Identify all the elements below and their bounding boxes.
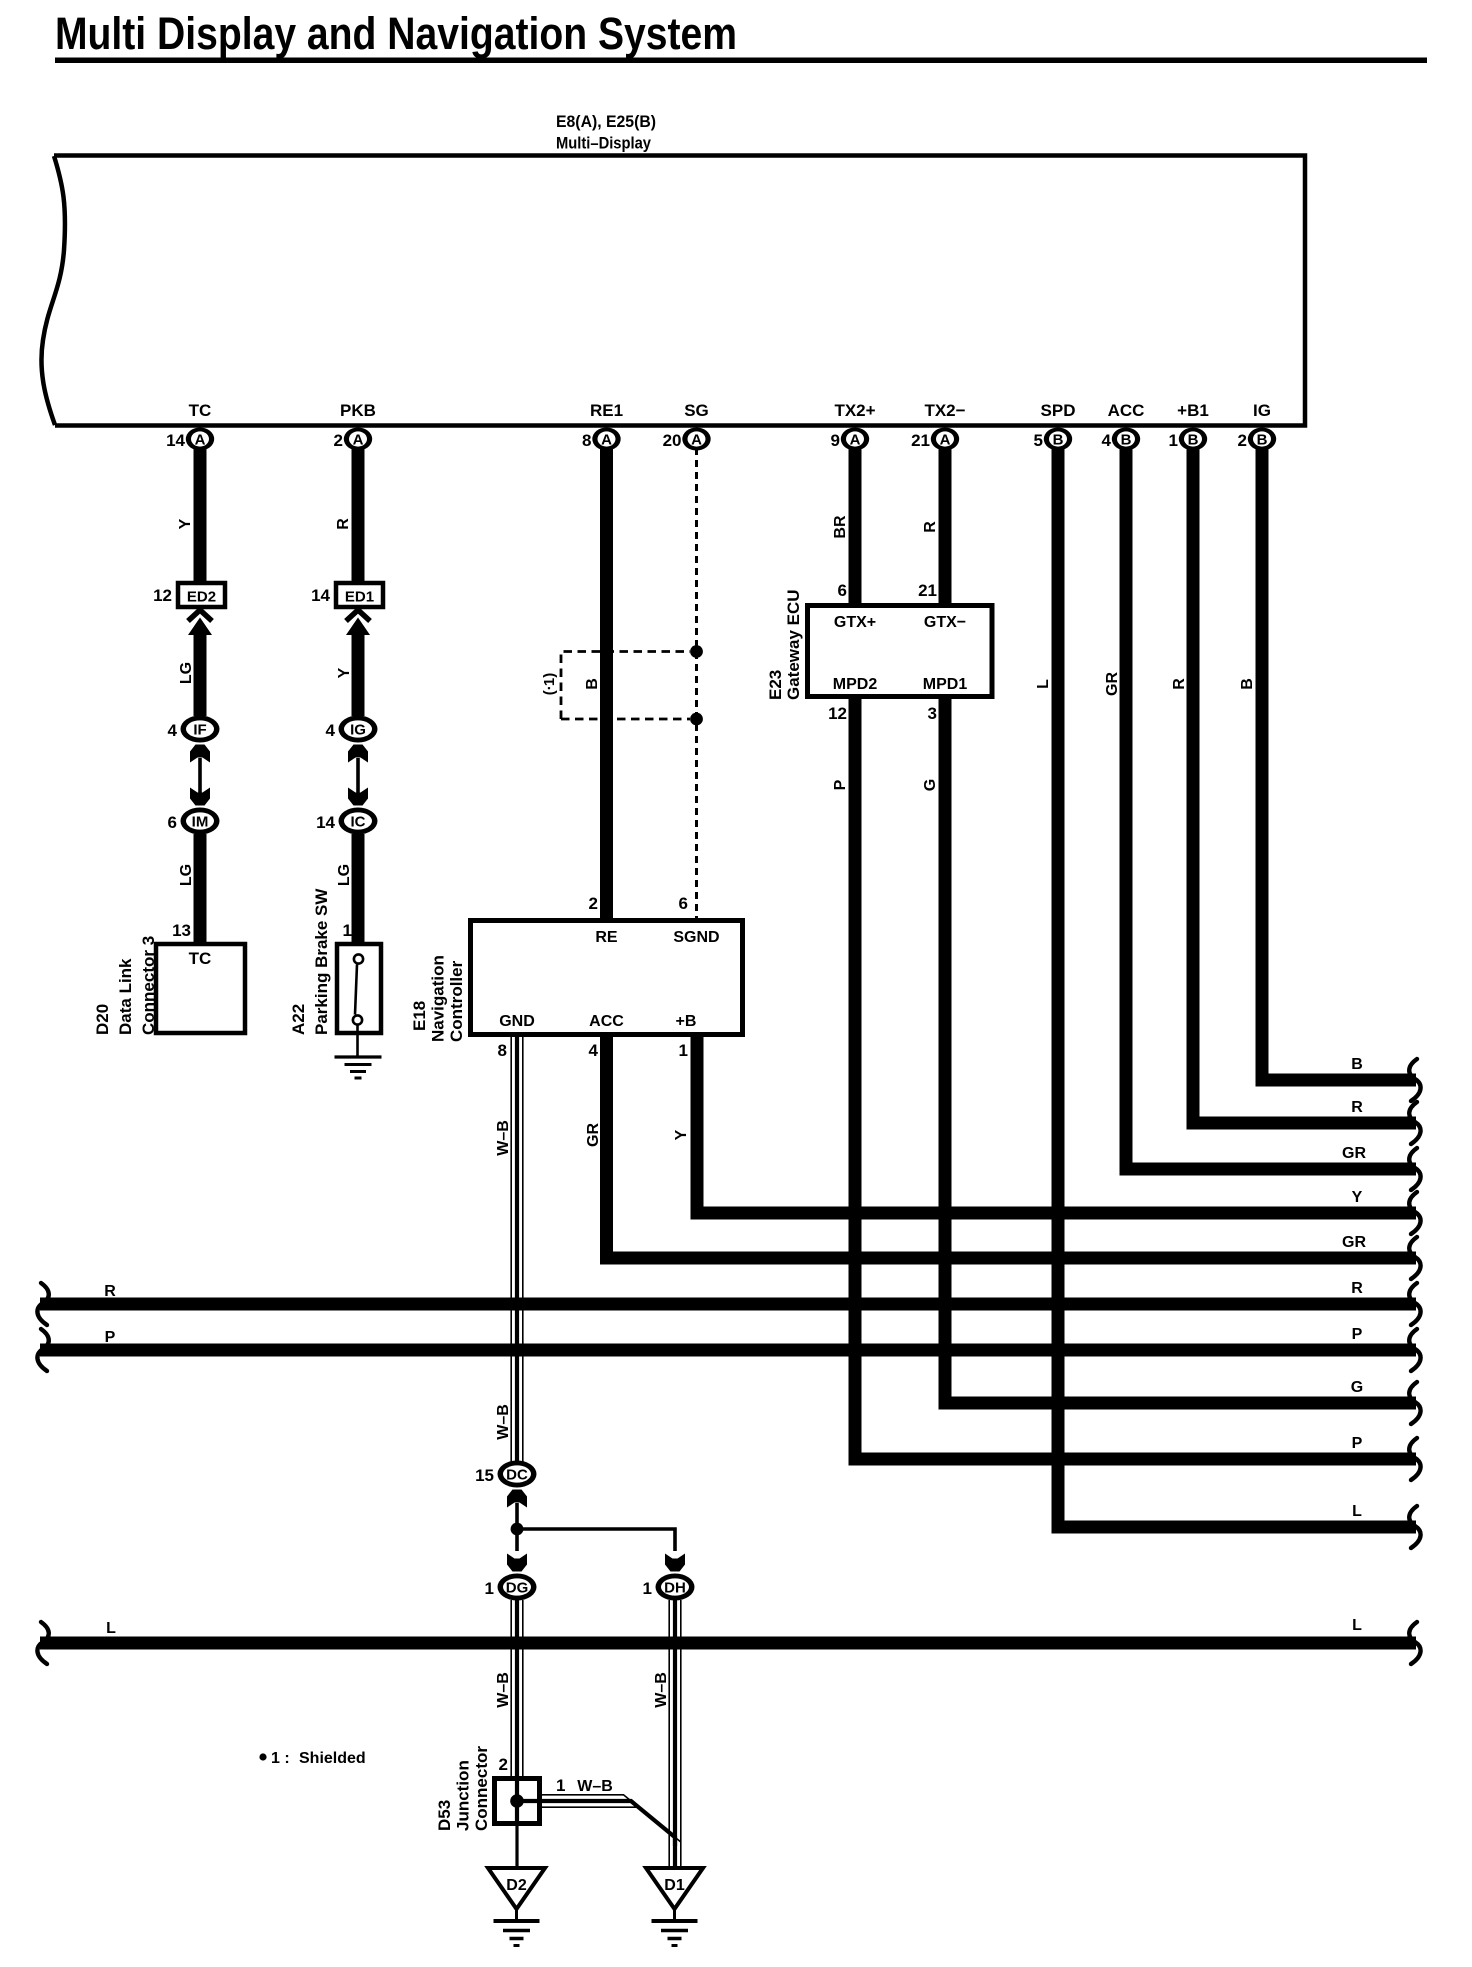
wire W-B from DG to junction connector D53 (510, 1600, 512, 1778)
switch blade (355, 965, 357, 1015)
svg-text:LG: LG (178, 662, 195, 684)
link line DC to branch node (515, 1503, 519, 1529)
svg-text:R: R (1351, 1280, 1363, 1297)
connector ED1 box (336, 583, 383, 607)
svg-text:IC: IC (351, 813, 366, 830)
arrow up into IF (190, 745, 210, 763)
wire TX2+ (BR) from pin 9(A) to Gateway ECU pin 6 (849, 448, 862, 607)
wire P trunk left break (37, 1329, 48, 1371)
arrow up into DC (507, 1490, 527, 1508)
wire PKB (R) pin 2(A) to connector ED1 (352, 448, 365, 582)
svg-text:Gateway ECU: Gateway ECU (784, 589, 803, 700)
wire SPD (L) from pin 5(B) to right edge (1058, 448, 1416, 1527)
svg-text:D53: D53 (435, 1800, 454, 1831)
svg-text:2: 2 (1238, 431, 1247, 450)
svg-text:P: P (105, 1329, 116, 1346)
link line IG to IC (356, 758, 360, 802)
wire W-B from DH down to ground D1 (668, 1600, 670, 1868)
svg-text:14: 14 (311, 586, 330, 605)
svg-text:9: 9 (831, 431, 840, 450)
Data Link Connector 3 box D20 (156, 944, 245, 1033)
wire MPD2 (P) from Gateway ECU pin 12 to right edge (855, 695, 1416, 1459)
branch line to DH (517, 1529, 675, 1551)
svg-text:MPD1: MPD1 (923, 676, 968, 693)
ground triangle D1 (646, 1868, 703, 1909)
D53 center wire (515, 1781, 519, 1821)
wire ACC (GR) from pin 4(B) to right edge (1126, 448, 1416, 1169)
arrow down into DG (507, 1554, 527, 1572)
connector ED2 box (178, 583, 225, 607)
branch node dot (511, 1523, 524, 1536)
switch contact top (354, 954, 363, 963)
svg-text:A: A (940, 432, 951, 449)
svg-text:1 :: 1 : (271, 1750, 290, 1767)
svg-text:E8(A), E25(B): E8(A), E25(B) (556, 112, 656, 131)
svg-text:E23: E23 (766, 670, 785, 700)
svg-text:B: B (1188, 432, 1199, 449)
title underline (55, 58, 1427, 64)
svg-text:Multi Display and Navigation S: Multi Display and Navigation System (55, 8, 737, 59)
svg-text:GR: GR (1104, 672, 1121, 696)
svg-text:+B: +B (676, 1013, 697, 1030)
wire nav GND (W-B) pin 8 down to junction DC (510, 1034, 512, 1462)
svg-text:GR: GR (585, 1123, 602, 1147)
svg-text:L: L (106, 1620, 116, 1637)
junction connector IF (181, 716, 220, 743)
svg-text:1: 1 (556, 1776, 565, 1795)
ground symbol under D1 (673, 1909, 676, 1920)
svg-text:12: 12 (153, 586, 172, 605)
svg-text:13: 13 (172, 921, 191, 940)
D53 junction dot (510, 1794, 524, 1808)
wire LG from IC to A22 (352, 834, 365, 944)
svg-text:8: 8 (582, 431, 591, 450)
svg-text:Controller: Controller (447, 960, 466, 1042)
wire R trunk (full width) (40, 1298, 1416, 1311)
svg-text:2: 2 (589, 894, 598, 913)
svg-text:W–B: W–B (495, 1404, 512, 1440)
svg-text:A: A (691, 432, 702, 449)
svg-text:P: P (1352, 1435, 1363, 1452)
svg-text:ED2: ED2 (187, 589, 216, 606)
wire D53 to ground D2 (515, 1823, 518, 1868)
switch contact bottom (353, 1015, 362, 1024)
svg-text:21: 21 (918, 581, 937, 600)
svg-text:P: P (832, 779, 849, 790)
svg-text:GTX−: GTX− (924, 614, 966, 631)
link line IF to IM (198, 758, 202, 802)
svg-text:IF: IF (193, 721, 206, 738)
svg-text:B: B (1121, 432, 1132, 449)
svg-text:DH: DH (664, 1579, 686, 1596)
link line node to DG arrow (515, 1529, 519, 1551)
svg-text:12: 12 (828, 704, 847, 723)
svg-text:BR: BR (832, 515, 849, 539)
svg-text:1: 1 (643, 1579, 652, 1598)
svg-text:R: R (922, 521, 939, 533)
Navigation Controller box E18 (471, 921, 743, 1035)
wire RE1 (B) pin 8(A) to Navigation Controller RE pin 2 (600, 448, 613, 922)
svg-text:4: 4 (589, 1041, 599, 1060)
svg-text:LG: LG (336, 864, 353, 886)
svg-text:Y: Y (673, 1129, 690, 1140)
connector ED2 chevron arrow (188, 610, 212, 621)
junction connector IM (181, 808, 220, 835)
svg-text:B: B (1351, 1056, 1363, 1073)
svg-text:Multi–Display: Multi–Display (556, 134, 651, 153)
switch wire to ground (356, 1025, 359, 1057)
svg-text:TC: TC (189, 949, 212, 968)
svg-text:4: 4 (168, 721, 178, 740)
svg-text:MPD2: MPD2 (833, 676, 878, 693)
ECU box left torn edge (41, 156, 65, 425)
svg-text:Data Link: Data Link (116, 958, 135, 1035)
junction connector DC (498, 1461, 537, 1488)
svg-text:E18: E18 (410, 1001, 429, 1031)
svg-text:R: R (335, 518, 352, 530)
svg-text:B: B (1239, 678, 1256, 690)
svg-text:R: R (104, 1283, 116, 1300)
svg-text:ACC: ACC (1108, 401, 1145, 420)
svg-text:SG: SG (684, 401, 709, 420)
svg-text:W–B: W–B (577, 1778, 613, 1795)
wire P trunk right break (1409, 1329, 1420, 1371)
svg-text:R: R (1351, 1099, 1363, 1116)
W-B jumper wire D53 to D1 drop (540, 1795, 668, 1832)
svg-text:IG: IG (1253, 401, 1271, 420)
svg-text:5: 5 (1034, 431, 1043, 450)
wire TX2- (R) from pin 21(A) to Gateway ECU pin 21 (939, 448, 952, 607)
svg-text:6: 6 (679, 894, 688, 913)
svg-text:W–B: W–B (495, 1120, 512, 1156)
junction connector IC (339, 808, 378, 835)
svg-text:2: 2 (334, 431, 343, 450)
svg-text:TX2+: TX2+ (834, 401, 875, 420)
svg-text:G: G (922, 779, 939, 791)
wire nav ACC (GR) pin 4 to right edge (607, 1034, 1417, 1258)
svg-text:Y: Y (1352, 1189, 1363, 1206)
wire LG from IM to D20 (194, 834, 207, 944)
svg-text:2: 2 (499, 1755, 508, 1774)
arrow down into IM (190, 788, 210, 806)
svg-text:LG: LG (178, 864, 195, 886)
svg-text:1: 1 (343, 921, 352, 940)
svg-text:14: 14 (316, 813, 335, 832)
svg-text:RE: RE (595, 929, 618, 946)
wire R trunk right break (1409, 1283, 1420, 1325)
wire nav +B (Y) pin 1 to right edge (697, 1034, 1416, 1213)
connector ED1 chevron arrow (346, 610, 370, 621)
svg-text:DC: DC (506, 1466, 528, 1483)
svg-text:PKB: PKB (340, 401, 376, 420)
wire IG (B) from pin 2(B) to right edge (1262, 448, 1416, 1080)
wire L trunk left break (37, 1622, 48, 1664)
wire LG from ED2 to junction IF (194, 629, 207, 716)
svg-text:L: L (1035, 679, 1052, 689)
svg-text:IM: IM (192, 813, 209, 830)
svg-text:TX2−: TX2− (924, 401, 965, 420)
svg-text:IG: IG (350, 721, 366, 738)
svg-text:B: B (1257, 432, 1268, 449)
note bullet (259, 1753, 266, 1760)
svg-text:GR: GR (1342, 1234, 1366, 1251)
svg-text:ACC: ACC (589, 1013, 624, 1030)
arrow up into IG (348, 745, 368, 763)
svg-text:14: 14 (166, 431, 185, 450)
svg-text:Parking Brake SW: Parking Brake SW (312, 888, 331, 1035)
svg-text:15: 15 (475, 1466, 494, 1485)
svg-text:3: 3 (928, 704, 937, 723)
svg-text:DG: DG (506, 1579, 529, 1596)
svg-text:A: A (195, 432, 206, 449)
svg-text:A: A (353, 432, 364, 449)
junction connector DH (656, 1574, 695, 1601)
svg-text:B: B (584, 678, 601, 690)
svg-text:D2: D2 (506, 1877, 527, 1894)
svg-text:Connector 3: Connector 3 (139, 936, 158, 1035)
svg-text:D20: D20 (93, 1004, 112, 1035)
svg-text:4: 4 (326, 721, 336, 740)
svg-text:A22: A22 (289, 1004, 308, 1035)
svg-text:Y: Y (336, 667, 353, 678)
svg-text:L: L (1352, 1617, 1362, 1634)
svg-text:D1: D1 (664, 1877, 685, 1894)
svg-text:ED1: ED1 (345, 589, 374, 606)
wire TC (Y) pin 14(A) to connector ED2 (194, 448, 207, 582)
svg-text:SPD: SPD (1041, 401, 1076, 420)
junction connector D53 box (495, 1779, 540, 1824)
wire L trunk (full width) (40, 1637, 1416, 1650)
svg-text:L: L (1352, 1503, 1362, 1520)
svg-text:6: 6 (168, 813, 177, 832)
junction connector DG (498, 1574, 537, 1601)
svg-text:GTX+: GTX+ (834, 614, 876, 631)
svg-text:1: 1 (679, 1041, 688, 1060)
svg-text:SGND: SGND (673, 929, 719, 946)
wire MPD1 (G) from Gateway ECU pin 3 to right edge (945, 695, 1416, 1403)
svg-text:A: A (850, 432, 861, 449)
svg-text:RE1: RE1 (590, 401, 623, 420)
arrow down into IC (348, 788, 368, 806)
D53 dot to right edge link (517, 1799, 539, 1803)
wire +B1 (R) from pin 1(B) to right edge (1193, 448, 1416, 1123)
svg-text:Navigation: Navigation (429, 955, 448, 1042)
wire Y from ED1 to junction IG (352, 629, 365, 716)
svg-text:+B1: +B1 (1177, 401, 1209, 420)
svg-text:8: 8 (498, 1041, 507, 1060)
ground symbol under D2 (515, 1909, 518, 1920)
Parking Brake SW box A22 (337, 944, 381, 1033)
ground symbol under A22 (335, 1055, 382, 1058)
svg-text:20: 20 (663, 431, 682, 450)
svg-text:P: P (1352, 1326, 1363, 1343)
shield junction dot top (690, 645, 703, 658)
shield box around RE1 wire (dashed) (561, 652, 690, 720)
svg-text:21: 21 (911, 431, 930, 450)
svg-text:Connector: Connector (472, 1746, 491, 1831)
ECU box E8/E25 Multi-Display outline (54, 156, 1305, 426)
svg-text:GR: GR (1342, 1145, 1366, 1162)
svg-text:R: R (1171, 678, 1188, 690)
wire L trunk right break (1409, 1622, 1420, 1664)
svg-text:Y: Y (177, 518, 194, 529)
svg-text:TC: TC (189, 401, 212, 420)
svg-text:W–B: W–B (495, 1672, 512, 1708)
wire SG shield drain pin 20(A) to SGND (dashed) (695, 448, 698, 922)
ground triangle D2 (488, 1868, 545, 1909)
svg-text:A: A (601, 432, 612, 449)
svg-text:(∙1): (∙1) (541, 673, 558, 696)
svg-text:B: B (1053, 432, 1064, 449)
svg-text:W–B: W–B (653, 1672, 670, 1708)
wire R trunk left break (37, 1283, 48, 1325)
Gateway ECU box E23 (808, 606, 993, 697)
svg-text:1: 1 (485, 1579, 494, 1598)
svg-text:G: G (1351, 1379, 1363, 1396)
svg-text:6: 6 (838, 581, 847, 600)
svg-text:GND: GND (499, 1013, 535, 1030)
junction connector IG (339, 716, 378, 743)
svg-text:1: 1 (1169, 431, 1178, 450)
svg-text:4: 4 (1102, 431, 1112, 450)
shield junction dot bottom (690, 713, 703, 726)
svg-text:Shielded: Shielded (299, 1750, 366, 1767)
wire P trunk (full width) (40, 1344, 1416, 1357)
svg-text:Junction: Junction (454, 1760, 473, 1831)
arrow down into DH (665, 1554, 685, 1572)
